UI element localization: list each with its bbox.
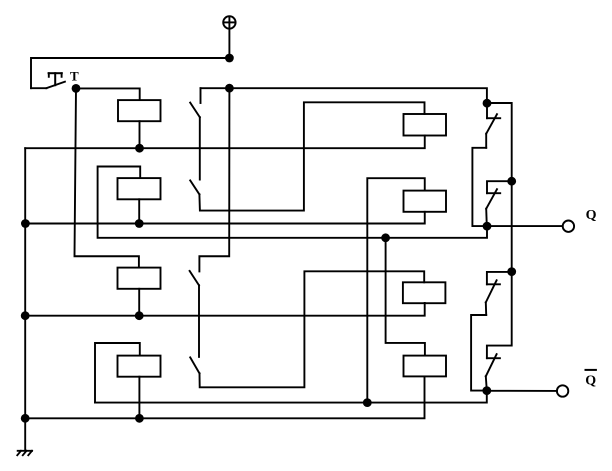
wire K1 bottom — [139, 121, 141, 148]
wire supply to node at y58 — [228, 29, 230, 58]
wire S4 bottom to coil K7 top — [200, 271, 425, 387]
node supply-y58 — [225, 54, 234, 63]
ground — [17, 451, 32, 455]
wire K6 top loop to Qbar bus — [367, 178, 424, 402]
contact S8 break — [486, 354, 500, 390]
wire ground bus y148 — [25, 136, 425, 149]
pushbutton T — [31, 73, 65, 88]
label Qbar — [585, 370, 596, 388]
wire Qbar feedback bus y402 — [95, 391, 487, 403]
wire right +V rail — [487, 103, 512, 272]
contact S5 break — [486, 103, 500, 148]
svg-text:Q: Q — [586, 208, 597, 223]
wire T node down to coil K3 feed — [75, 88, 139, 267]
wire +V bus y88 — [201, 88, 487, 103]
node Q feedback branch — [381, 233, 390, 242]
wire ground bus y315 — [25, 303, 425, 316]
node K2 bottom — [135, 219, 144, 228]
coil K8 — [404, 356, 447, 377]
coil K5 — [404, 114, 447, 136]
wire ground bus y418 — [25, 376, 424, 418]
wire to terminal Qbar — [487, 390, 557, 392]
coil K4 — [118, 356, 161, 377]
coil K1 — [118, 100, 161, 121]
node K4 bottom — [135, 414, 144, 423]
node ground bus y418 — [21, 414, 30, 423]
wire T node to coil K1 top — [76, 88, 140, 100]
contact S4 make — [190, 357, 199, 373]
node T output — [72, 84, 81, 93]
node right +V corner — [483, 99, 492, 108]
svg-text:Q: Q — [585, 373, 596, 388]
wire K4 top loop — [95, 343, 140, 403]
wire top bus y58 — [31, 58, 229, 88]
node Qbar bus to K6 loop — [363, 398, 372, 407]
terminal Qbar — [557, 385, 568, 396]
node Q — [483, 222, 492, 231]
terminal Q — [563, 221, 574, 232]
contact S3 make — [190, 271, 199, 285]
contact S7 break — [486, 272, 512, 315]
contact S2 make — [190, 180, 199, 194]
coil K3 — [118, 268, 161, 289]
wire Q feedback to coil K2 top — [98, 167, 487, 238]
node Qbar — [482, 386, 491, 395]
coil K6 — [404, 191, 447, 212]
wire to terminal Q — [487, 225, 563, 227]
wire S3 to S4 — [198, 285, 200, 357]
node right rail to S6 — [507, 177, 516, 186]
wire Q feedback branch to coil K8 top — [386, 238, 425, 356]
power supply terminal + — [223, 16, 235, 28]
wire S5 bottom to Q node — [472, 148, 487, 226]
coil K2 — [118, 178, 161, 199]
wire S1 to S2 — [199, 117, 201, 179]
wire ground rail left — [24, 148, 26, 450]
node K1 bottom — [135, 144, 144, 153]
node +V rail y88 — [225, 84, 234, 93]
node ground bus y315 — [21, 311, 30, 320]
contact S6 break — [486, 181, 512, 226]
contact S1 make — [190, 88, 200, 117]
wire S2 bottom to coil K5 top — [199, 102, 424, 210]
wire +V rail down to contact S3 link — [199, 88, 229, 271]
wire S7 bottom to Qbar node — [471, 315, 487, 391]
wire K4 bottom — [138, 377, 140, 419]
svg-text:T: T — [70, 69, 79, 84]
wire right rail lower — [487, 272, 512, 359]
node K3 bottom — [135, 311, 144, 320]
wire ground bus y223 — [25, 212, 424, 224]
node right rail to S7 — [507, 267, 516, 276]
wire K2 bottom — [138, 199, 140, 223]
coil K7 — [403, 282, 446, 303]
node ground bus y223 — [21, 219, 30, 228]
wire K3 bottom — [138, 289, 140, 316]
